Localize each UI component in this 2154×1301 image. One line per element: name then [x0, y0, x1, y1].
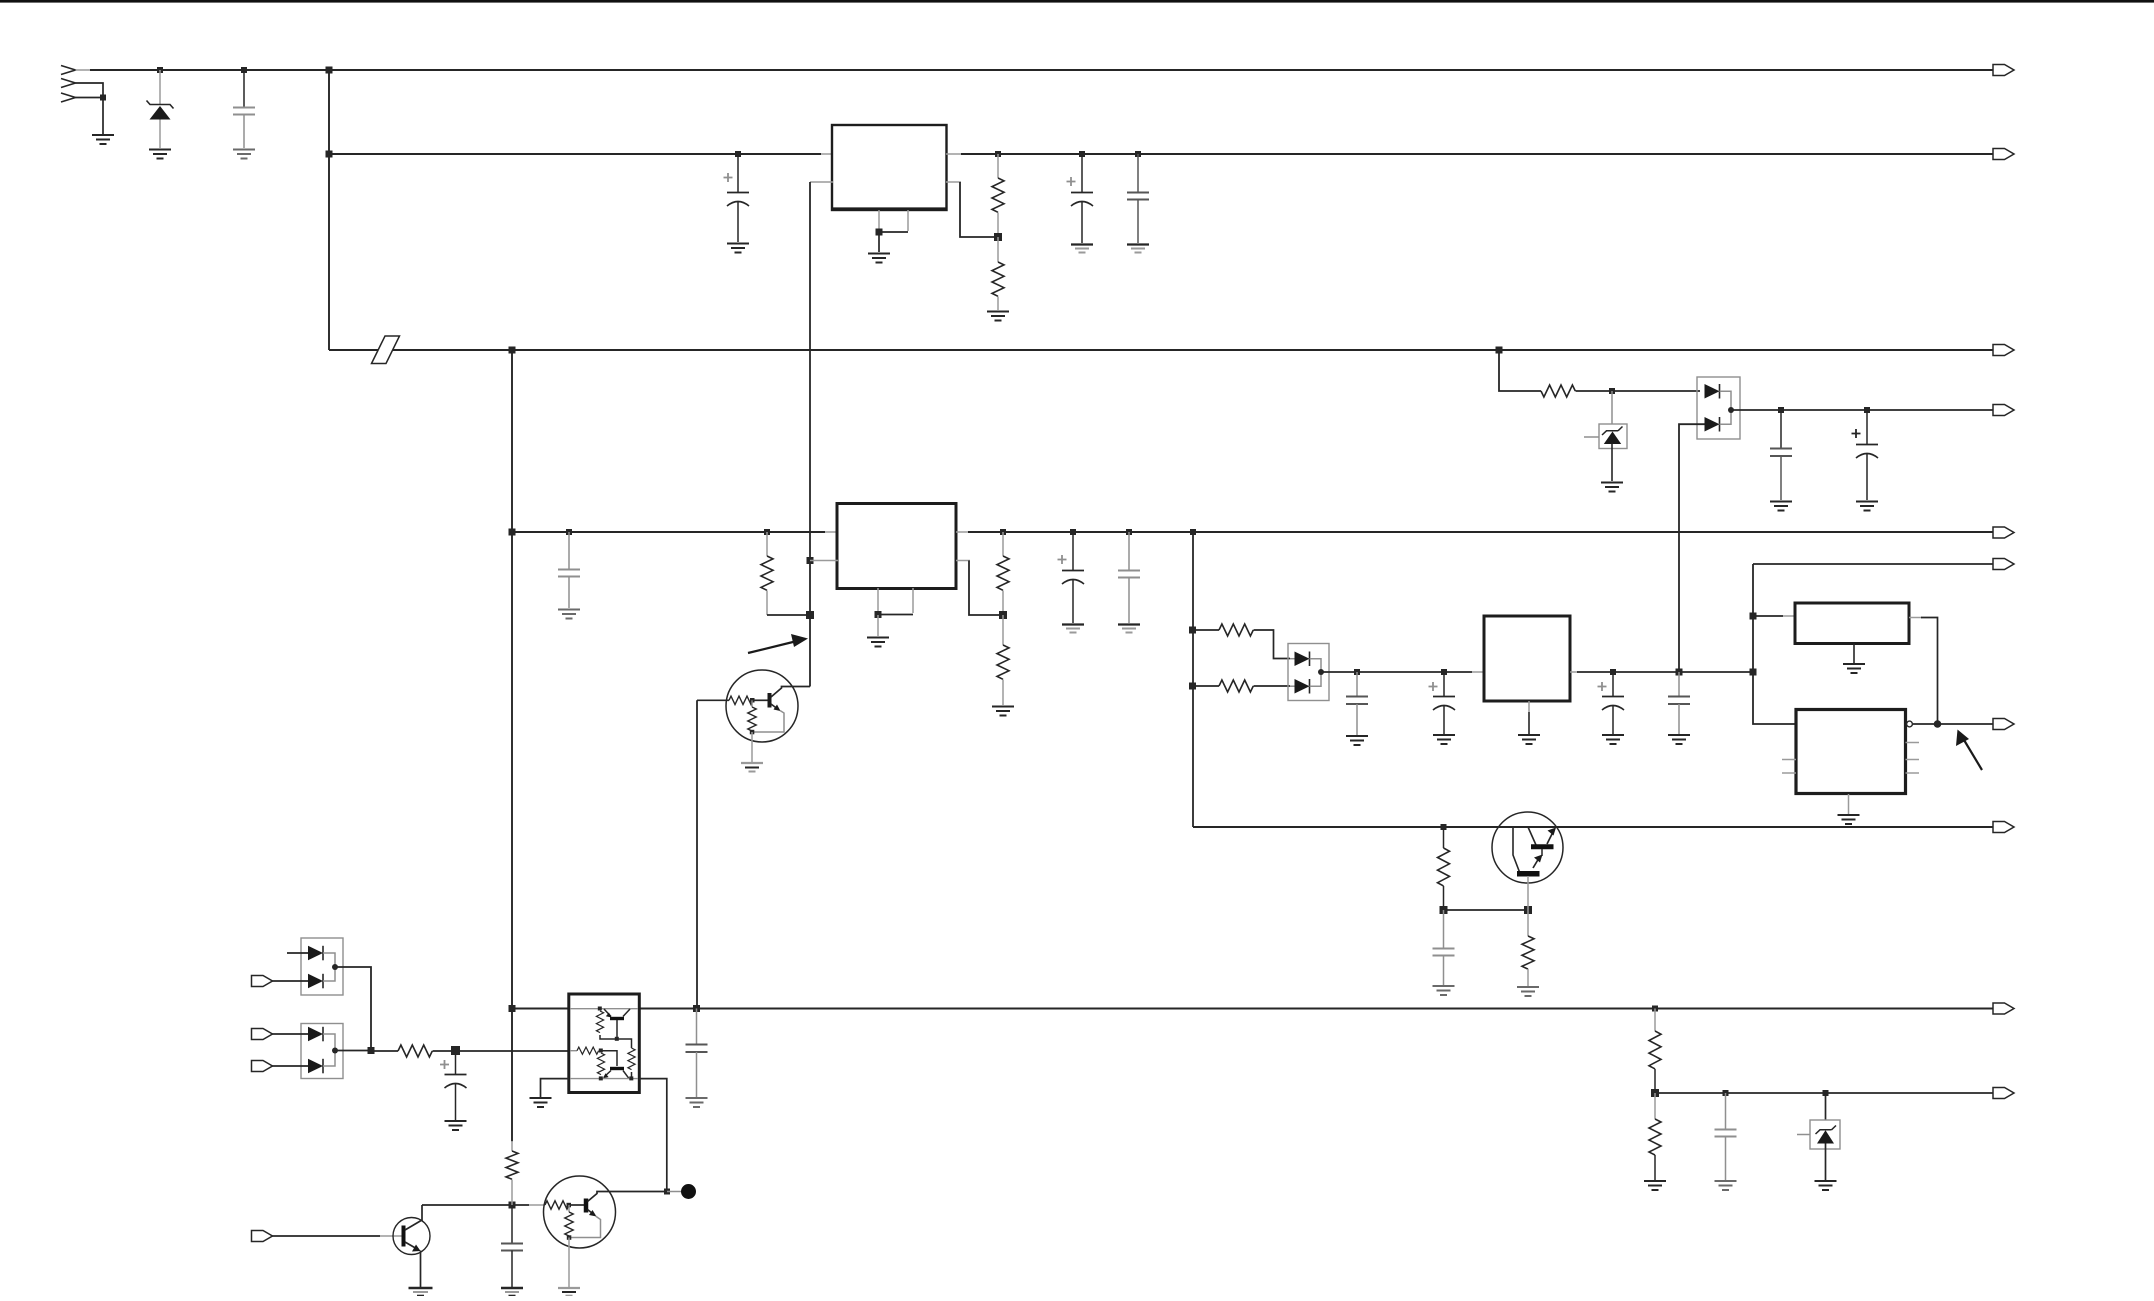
ground GC17 [686, 1098, 708, 1107]
capacitor C14 [1443, 910, 1445, 948]
wire J1 pin2 to ground [76, 83, 104, 98]
arrow input J3 [252, 1029, 273, 1040]
diode D6b [308, 974, 323, 989]
base bar Q1 [768, 693, 772, 708]
node bus3 / x512 [509, 529, 516, 536]
wire bus4 y=1008.5 [512, 1008, 1993, 1010]
wire U2 gnd lead [877, 615, 879, 636]
arrow input J4 [252, 1061, 273, 1072]
wire J3 to D7a [273, 1033, 309, 1035]
capacitor C4 [1137, 154, 1139, 192]
ground GC3 [1071, 245, 1093, 253]
wire R13 to node [433, 1050, 457, 1052]
wire D3 anode2 from below vertical x=1679 [1679, 424, 1705, 672]
top page border bar [0, 0, 2154, 3]
wire node to R13 [371, 1050, 398, 1052]
node U2 pin2 / x810 [807, 557, 814, 564]
ground GR12 [1644, 1181, 1666, 1190]
node D4 output [1318, 669, 1324, 675]
node U6 base2 [599, 1049, 603, 1053]
node opto R7 tap [1189, 627, 1196, 634]
resistor R7 opto top [1193, 629, 1219, 631]
emitter lead Q2 [1527, 876, 1529, 936]
node U6 mid [615, 1037, 619, 1041]
ground GD1 [149, 150, 171, 159]
ground GR2 [987, 312, 1009, 321]
wire R4 bottom to x810 [767, 614, 810, 616]
wire U6 right pin down to y1191 [639, 1079, 667, 1192]
wire R9 node to Q2 emitter [1444, 909, 1529, 911]
wire J4 to D7b [273, 1065, 309, 1067]
capacitor C10 [1356, 672, 1358, 696]
wires inside D7 [323, 1034, 335, 1066]
node C2 tap [735, 151, 741, 157]
annotation arrow at U2 adjust [748, 641, 797, 653]
collector Q4 [588, 1192, 668, 1202]
wires inside D6 [323, 953, 335, 981]
node Q1 base-R junction [750, 698, 755, 703]
zener TVS D2 box [1611, 391, 1613, 424]
resistor U6-Rd [597, 1053, 604, 1075]
ground GR6 [992, 707, 1014, 716]
node C9 tap bus3 [1126, 529, 1132, 535]
wire J2 to D6b [273, 980, 309, 982]
IC U4 wide box [1795, 603, 1909, 644]
node C7 tap [566, 529, 572, 535]
node Q2 emitter row [1524, 906, 1532, 914]
IC U5 supervisor box [1796, 710, 1906, 794]
ground GC15 [1715, 1181, 1737, 1190]
emitter arrow Q2 lower [1533, 858, 1539, 868]
base diag Q2 upper [1528, 827, 1536, 845]
wire down to ground [102, 98, 104, 135]
wire row y=1093 [1655, 1092, 1993, 1094]
capacitor C9 [1128, 532, 1130, 570]
pin U1 right pin2 stub [946, 181, 961, 183]
capacitor C15 [1725, 1093, 1727, 1129]
wires inside D4 [1290, 658, 1295, 660]
node R11/R12 row2 [1651, 1089, 1659, 1097]
link bar1 to arrow2 [1541, 849, 1543, 856]
node D6/D7 join [368, 1047, 375, 1054]
pin U2 bottom stubs [877, 588, 879, 613]
wire U5 output row y=724 [1913, 723, 1993, 725]
ground GC12 [1602, 735, 1624, 744]
arrow output bus3 y=532 [1993, 527, 2014, 538]
node D3 output [1728, 407, 1734, 413]
pin U1 left pin2 stub [810, 181, 833, 183]
collector entry Q2 [1513, 827, 1520, 872]
arrow output y=1093 [1993, 1088, 2014, 1099]
wire U6 pin3 to ground [541, 1079, 570, 1097]
wire to big terminal [667, 1191, 683, 1193]
wire Qa base down [616, 1020, 618, 1039]
diode D3b [1705, 417, 1720, 432]
node C6 tap [1864, 407, 1870, 413]
big terminal dot [681, 1184, 696, 1199]
ground GC10 [1346, 736, 1368, 745]
U6 internal bottom row [570, 1078, 638, 1080]
arrow output y=724 [1993, 719, 2014, 730]
resistor R13 horizontal [398, 1045, 432, 1057]
node y1205/x512 [509, 1202, 516, 1209]
wire to ground [878, 232, 880, 252]
zener TVS D5 box [1825, 1093, 1827, 1120]
dual LED pack D4 box [1288, 644, 1329, 701]
wire gray stub into U1 [821, 153, 833, 155]
arrow input J5 [252, 1231, 273, 1242]
diode D7a [308, 1027, 323, 1042]
resistor R2 [997, 237, 999, 262]
arrow output y=564 [1993, 559, 2014, 570]
ground GU2 [867, 638, 889, 647]
node R13/C16 [451, 1046, 460, 1055]
wire bus3 y=532 left segment [512, 531, 825, 533]
diode D4b [1295, 679, 1310, 694]
pin U3 bottom stub [1528, 701, 1530, 712]
wire main left vertical x=330 [328, 70, 330, 350]
ground GC7 [558, 610, 580, 619]
wire D6 input1 stub [287, 952, 308, 954]
node C17 tap bus4 [693, 1005, 700, 1012]
node D6 output [332, 964, 338, 970]
pin U4 right stub [1909, 617, 1922, 619]
transistor U6-Qa emitter diag [604, 1009, 611, 1017]
wire U3 out row to x1753 [1577, 671, 1753, 673]
transistor U6-Qb collector diag [623, 1071, 629, 1079]
ground GJ1 [92, 135, 114, 144]
diode D6a [308, 946, 323, 961]
ground GU6 [530, 1098, 552, 1107]
emitter arrow Q2 upper [1547, 832, 1553, 844]
resistor R14 on x512 [511, 1141, 513, 1151]
node D7 output [332, 1048, 338, 1054]
node Q4 base junction [567, 1203, 572, 1208]
wire vertical x=697 down to bus4 [696, 700, 698, 1008]
wire D3 output row y=410 [1731, 409, 1993, 411]
wire opto out row y=672 [1321, 671, 1472, 673]
diode D3a [1705, 384, 1720, 399]
IC U2 regulator box [837, 504, 956, 589]
resistor Q4-R1 internal [545, 1201, 569, 1209]
ground GC16 [445, 1121, 467, 1130]
wire Q1 base input [697, 699, 729, 701]
capacitor C11 electrolytic [1443, 672, 1445, 696]
wire collector row y=1205 [422, 1204, 529, 1206]
node C4 tap bus2 [1135, 151, 1141, 157]
ground GD5 [1815, 1181, 1837, 1190]
wire base2 right + down [601, 1051, 617, 1066]
collector Q3 [405, 1205, 422, 1230]
node divider top on bus2 [995, 151, 1001, 157]
wire bus2 right segment [961, 153, 1993, 155]
base bar Q4 [584, 1199, 589, 1213]
wire J5 to Q3 base [273, 1235, 381, 1237]
wire to base bar [752, 699, 768, 701]
ground GC5 [1770, 502, 1792, 511]
wire Q1 emitter to ground [751, 732, 753, 762]
wire bus5 y=1051 to U6 [456, 1050, 570, 1052]
transistor Q4 digital (circle) [544, 1176, 616, 1248]
arrow input J2 [252, 976, 273, 987]
resistor Q1-R2 internal [751, 700, 753, 707]
node bus VIN / C1 [241, 67, 247, 73]
node C12 tap [1610, 669, 1616, 675]
wires inside D3 [1720, 391, 1732, 424]
node C11 tap [1441, 669, 1447, 675]
ground GC6 [1856, 502, 1878, 511]
wire Q3 emitter down to ground [420, 1251, 422, 1288]
node Q4 emitter join [567, 1235, 572, 1240]
ground GC8 [1062, 625, 1084, 633]
wire bus VIN y=70 [90, 69, 1993, 71]
wire vertical x=1753 [1753, 564, 1797, 724]
resistor R4 [766, 532, 768, 556]
node R4 tap bus3 [764, 529, 770, 535]
ground GU3 [1518, 735, 1540, 744]
collector bar Q2 upper [1531, 844, 1554, 849]
wire TVS branch down + to R3 [1499, 350, 1541, 391]
wire U1 pin2 to divider node [960, 182, 995, 237]
U6 internal vcc line [570, 1008, 638, 1010]
resistor Q1-R1 internal [729, 696, 753, 704]
node U6 internal top [598, 1007, 602, 1011]
IC U6 transistor-array box [569, 994, 640, 1093]
node C10 tap [1354, 669, 1360, 675]
capacitor C17 [696, 1009, 698, 1045]
node bus VIN / D1 [157, 67, 163, 73]
pin U3 right output [1570, 671, 1578, 673]
node bus2 tap [326, 151, 333, 158]
wire to base bar [569, 1204, 584, 1206]
node R9 tap [1441, 824, 1447, 830]
transistor Q1 digital (circle) [726, 670, 798, 742]
wire U2 pin2 down to node [969, 561, 1000, 616]
pin U4 left stub [1753, 615, 1783, 617]
pin U4 bottom stub + ground [1853, 644, 1855, 664]
capacitor C3 electrolytic [1081, 154, 1083, 192]
node R4/x810 [806, 611, 814, 619]
diode D4a [1295, 652, 1310, 667]
transistor Q3 (circle) [393, 1218, 430, 1255]
ground GC14 [1433, 986, 1455, 995]
node R11 tap [1652, 1006, 1658, 1012]
pin U5 stubs right [1906, 742, 1920, 744]
node R5/R6 [999, 611, 1007, 619]
node opto R8 tap [1189, 683, 1196, 690]
emitter Q4 with arrow [588, 1210, 595, 1216]
node bus4/x512 [509, 1005, 516, 1012]
base bar Q2 lower [1517, 871, 1540, 877]
pin U1 right output stub [946, 153, 963, 155]
ground GR10 [1517, 987, 1539, 996]
wire U1 bottom pins join [879, 231, 908, 233]
base bar U6-Qb [610, 1067, 624, 1070]
emitter Q3 with arrow [405, 1242, 418, 1250]
arrow output bus2 y=154 [1993, 149, 2014, 160]
IC U3 dcdc box [1484, 616, 1570, 701]
node switch row / x512 vertical [509, 347, 516, 354]
ground GC13 [1668, 735, 1690, 744]
node R9/C14 [1440, 906, 1448, 914]
wire J1 pin1 stub [76, 69, 93, 71]
pin U5 bottom stub + ground [1848, 794, 1850, 814]
diode D7b [308, 1059, 323, 1074]
wire switch row y=350 [329, 349, 378, 351]
wire D7 out to node [335, 1050, 371, 1052]
bubble U5 output [1907, 721, 1913, 727]
node y724/x1937 [1934, 720, 1942, 728]
resistor U6-Rb right [628, 1048, 635, 1070]
node R5 top bus3 [1000, 529, 1006, 535]
wire node to diode pack D3 [1612, 390, 1700, 392]
node bus VIN / main vertical [326, 67, 333, 74]
fuse/jumper F1 parallelogram [372, 336, 400, 364]
wire bus2 y=154 left segment [329, 153, 821, 155]
node C8 tap bus3 [1070, 529, 1076, 535]
dual diode pack D6 box [301, 938, 343, 995]
capacitor C6 electrolytic [1866, 410, 1868, 444]
arrow output VIN y=70 [1993, 65, 2014, 76]
node U4 pin left / x1753 [1750, 613, 1757, 620]
pin U1 bottom stubs [878, 210, 880, 231]
arrow output bus4 [1993, 1003, 2014, 1014]
ground GC11 [1433, 735, 1455, 744]
zener diode D1 [159, 70, 161, 104]
resistor R1 [997, 154, 999, 178]
resistor R10 [1522, 936, 1534, 969]
ground GQ4 [558, 1288, 580, 1296]
base bar Q3 [402, 1226, 406, 1247]
node x1679 row tap [1676, 669, 1683, 676]
pin U5 stubs left [1782, 759, 1796, 761]
ground GC1 [233, 150, 255, 159]
pin U6 input2 row y=1050.7 [570, 1050, 577, 1052]
node R1/R2 [994, 233, 1002, 241]
dual diode pack D7 box [301, 1024, 343, 1079]
resistor Q4-R2 internal [568, 1205, 570, 1212]
collector Q1 [771, 687, 810, 698]
capacitor C12 electrolytic [1612, 672, 1614, 696]
connector J1 input chevrons [61, 66, 76, 103]
capacitor C16 electrolytic [455, 1051, 457, 1074]
resistor U6-Ra [596, 1011, 603, 1033]
capacitor C1 [243, 70, 245, 107]
node U3 row / x1753 [1750, 669, 1757, 676]
resistor R9 [1443, 827, 1445, 848]
node x1193 bus3 [1190, 529, 1196, 535]
resistor U6-Rc [577, 1047, 599, 1054]
capacitor C2 electrolytic + ground [737, 154, 739, 192]
node J1 ground junction [100, 95, 106, 101]
wire vertical x=1193 bus3 to photo row [1192, 532, 1194, 827]
wire photo row y=827 [1193, 826, 1993, 828]
capacitor C5 [1780, 410, 1782, 448]
node C15 tap [1723, 1090, 1729, 1096]
wire D6 out to junction [335, 967, 371, 1051]
resistor R8 opto bottom [1193, 685, 1219, 687]
ground GQ1 [741, 763, 763, 772]
nodes U6 bottom [599, 1076, 603, 1080]
ground GC2 [727, 244, 749, 253]
transistor U6-Qb emitter diag w arrow [604, 1071, 611, 1078]
wire J1 pin3 to ground node [76, 97, 104, 99]
arrow output switch row y=350 [1993, 345, 2014, 356]
node U2 gnd [875, 611, 882, 618]
base bar U6-Qa [610, 1017, 624, 1020]
wire bus3 right segment [968, 531, 1993, 533]
node U1 gnd pin [876, 229, 883, 236]
node y1191 collector/U6 [664, 1189, 670, 1195]
node C3 tap bus2 [1079, 151, 1085, 157]
resistor R11 [1654, 1009, 1656, 1032]
node R3 / D2 [1609, 388, 1615, 394]
arrow output y=827 [1993, 822, 2014, 833]
ground GU1 [868, 254, 890, 263]
wire U6 mid row [600, 1035, 632, 1048]
node C5 tap [1778, 407, 1784, 413]
resistor R6 [1002, 615, 1004, 645]
node switch row / TVS branch [1496, 347, 1503, 354]
pin U2 right output stub [956, 531, 970, 533]
emitter Q1 with arrow [771, 704, 779, 710]
capacitor C18 below y1205 [511, 1205, 513, 1243]
wire output row y=564 [1753, 563, 1993, 565]
resistor R5 [1002, 532, 1004, 556]
annotation arrow at U5 output [1964, 740, 1982, 770]
capacitor C7 [568, 532, 570, 569]
transistor U6-Qa collector diag [623, 1009, 630, 1017]
ground GD2 [1601, 483, 1623, 492]
node Q1 emitter join [750, 730, 755, 735]
capacitor C13 [1678, 672, 1680, 696]
wire vertical x=810 from U1 pin2 down to Q1 [809, 182, 811, 687]
pin U2 left pin2 stub [810, 560, 838, 562]
wire U2 bottom pins join [878, 614, 913, 616]
resistor R3 horizontal [1541, 385, 1575, 397]
ground GC4 [1127, 245, 1149, 253]
ground GC9 [1118, 625, 1140, 633]
wire long vertical x=512 [511, 350, 513, 1142]
resistor R12 [1654, 1093, 1656, 1119]
IC U1 regulator box [832, 125, 947, 210]
node D5 tap [1823, 1090, 1829, 1096]
arrow output D3 row y=410 [1993, 405, 2014, 416]
dual diode pack D3 box [1697, 377, 1740, 439]
ground GQ3 [409, 1288, 433, 1296]
capacitor C8 electrolytic [1072, 532, 1074, 570]
pin U2 right pin2 stub [956, 560, 970, 562]
transistor Q2 photo (circle) [1492, 812, 1563, 883]
wire Q4 emitter to ground [568, 1238, 570, 1288]
ground GC18 [501, 1288, 523, 1296]
